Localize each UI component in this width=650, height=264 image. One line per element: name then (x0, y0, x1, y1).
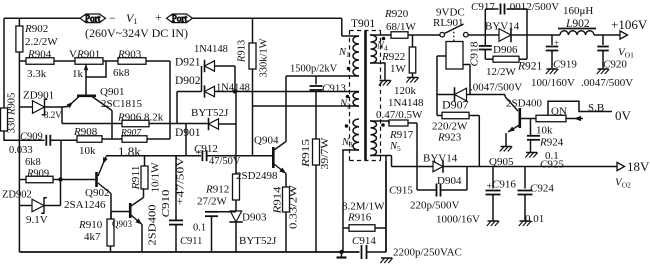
svg-text:(260V~324V DC IN): (260V~324V DC IN) (85, 28, 188, 40)
svg-text:1.8k: 1.8k (118, 144, 141, 159)
svg-text:2SD400: 2SD400 (506, 98, 543, 110)
svg-text:VO2: VO2 (615, 177, 631, 190)
svg-text:2.2/2W: 2.2/2W (25, 36, 58, 48)
svg-text:+: + (487, 182, 493, 193)
svg-text:C916: C916 (492, 179, 516, 191)
svg-text:120k: 120k (394, 85, 417, 97)
svg-text:C909: C909 (20, 132, 43, 143)
svg-text:0.33/2W: 0.33/2W (289, 185, 300, 229)
svg-text:BYV14: BYV14 (485, 21, 520, 33)
svg-text:R913: R913 (236, 40, 247, 63)
svg-text:Q901: Q901 (100, 86, 124, 98)
svg-text:Q902: Q902 (85, 187, 109, 199)
svg-text:Q905: Q905 (489, 156, 514, 168)
svg-text:S.B: S.B (588, 102, 604, 114)
svg-text:+: + (554, 38, 559, 48)
svg-text:R907: R907 (120, 129, 142, 139)
svg-text:Q904: Q904 (254, 135, 279, 147)
svg-text:0.47/0.5W: 0.47/0.5W (376, 109, 423, 121)
svg-text:R922: R922 (381, 51, 405, 63)
svg-text:N3: N3 (341, 137, 353, 149)
svg-text:C917: C917 (471, 1, 495, 13)
svg-text:3.3k: 3.3k (27, 68, 47, 80)
svg-text:R915: R915 (301, 139, 312, 168)
svg-text:Port: Port (172, 13, 188, 23)
svg-text:D902: D902 (175, 75, 201, 87)
svg-text:2SD400: 2SD400 (148, 205, 159, 246)
svg-text:C925: C925 (540, 159, 564, 171)
svg-text:C918: C918 (469, 42, 480, 67)
svg-text:+47/50V: +47/50V (175, 156, 186, 205)
svg-text:ZD902: ZD902 (2, 190, 32, 201)
svg-text:V1: V1 (126, 11, 137, 26)
svg-text:1N4148: 1N4148 (216, 83, 250, 94)
svg-text:T901: T901 (351, 18, 376, 30)
svg-text:.0047/500V: .0047/500V (581, 77, 633, 89)
svg-text:.0047/500V: .0047/500V (470, 82, 522, 94)
svg-text:R911: R911 (131, 166, 142, 191)
svg-text:Port: Port (85, 13, 101, 23)
svg-text:R923: R923 (437, 132, 462, 144)
svg-text:9.1V: 9.1V (26, 214, 48, 226)
svg-text:6k8: 6k8 (25, 157, 41, 168)
svg-text:D907: D907 (442, 98, 469, 112)
svg-text:220p/500V: 220p/500V (410, 200, 460, 212)
svg-text:D906: D906 (493, 44, 518, 56)
svg-text:D904: D904 (437, 175, 462, 187)
svg-text:R908: R908 (73, 126, 98, 138)
svg-text:1N4148: 1N4148 (388, 97, 424, 109)
svg-text:L902: L902 (565, 18, 590, 30)
svg-text:1k: 1k (72, 68, 84, 80)
svg-text:BYV14: BYV14 (423, 153, 458, 165)
svg-text:6k8: 6k8 (113, 67, 130, 79)
svg-text:10k: 10k (536, 125, 553, 137)
svg-text:2SA1246: 2SA1246 (64, 199, 106, 211)
svg-text:BYT52J: BYT52J (239, 235, 277, 247)
svg-text:330 R905: 330 R905 (7, 93, 18, 134)
svg-text:0.033: 0.033 (9, 145, 33, 156)
svg-text:D921: D921 (175, 57, 201, 69)
svg-text:R917: R917 (389, 129, 414, 141)
svg-text:330k/1W: 330k/1W (258, 38, 269, 77)
svg-text:2200p/250VAC: 2200p/250VAC (393, 247, 462, 259)
svg-text:39/7W: 39/7W (320, 137, 331, 169)
svg-text:BYT52J: BYT52J (191, 107, 229, 119)
svg-text:ON: ON (551, 106, 567, 118)
svg-text:2SC1815: 2SC1815 (101, 98, 142, 110)
svg-text:1000/16V: 1000/16V (436, 214, 480, 226)
svg-text:1500p/2kV: 1500p/2kV (290, 64, 338, 75)
svg-text:R902: R902 (24, 23, 48, 35)
svg-text:C911: C911 (180, 236, 202, 247)
svg-text:0V: 0V (615, 108, 632, 123)
svg-text:Q903: Q903 (112, 219, 132, 229)
svg-text:10/1W: 10/1W (151, 162, 162, 192)
svg-text:1N4148: 1N4148 (194, 44, 228, 55)
svg-text:R903: R903 (117, 49, 142, 61)
svg-text:R910: R910 (78, 219, 103, 231)
svg-text:12/2W: 12/2W (486, 66, 517, 78)
svg-text:R912: R912 (205, 184, 229, 196)
svg-text:R906 8.2k: R906 8.2k (117, 112, 164, 124)
svg-text:R924: R924 (539, 137, 564, 149)
svg-text:18V: 18V (627, 159, 650, 174)
svg-text:8.2V: 8.2V (44, 110, 62, 120)
svg-text:−: − (109, 11, 116, 25)
svg-text:.0012/500V: .0012/500V (507, 1, 559, 13)
svg-text:C919: C919 (553, 59, 577, 71)
svg-text:N5: N5 (389, 141, 401, 153)
svg-text:C914: C914 (352, 235, 376, 247)
svg-text:R909: R909 (26, 169, 49, 180)
svg-text:D901: D901 (175, 127, 201, 139)
svg-text:R916: R916 (347, 212, 372, 224)
svg-text:R914: R914 (272, 186, 283, 215)
svg-text:R921: R921 (517, 61, 543, 73)
svg-text:+106V: +106V (611, 17, 648, 32)
svg-text:160μH: 160μH (563, 5, 593, 17)
svg-text:C913: C913 (322, 83, 346, 95)
svg-text:0.01: 0.01 (525, 213, 544, 225)
svg-text:C924: C924 (530, 183, 554, 195)
svg-text:R904: R904 (27, 49, 52, 61)
svg-text:100/160V: 100/160V (531, 77, 575, 89)
svg-text:1W: 1W (390, 63, 407, 75)
svg-text:ZD901: ZD901 (23, 90, 54, 102)
svg-text:0.1: 0.1 (193, 223, 206, 234)
svg-text:D903: D903 (242, 212, 267, 224)
svg-text:C915: C915 (389, 185, 413, 197)
svg-text:10k: 10k (79, 145, 96, 157)
svg-text:2SD2498: 2SD2498 (236, 170, 278, 182)
svg-text:R920: R920 (384, 8, 409, 20)
svg-text:+: + (155, 10, 162, 24)
svg-text:+: + (196, 148, 202, 159)
svg-text:68/1W: 68/1W (386, 21, 417, 33)
svg-text:RL901: RL901 (433, 17, 464, 29)
svg-text:47/50V: 47/50V (209, 156, 241, 167)
svg-text:27/2W: 27/2W (197, 196, 228, 208)
svg-text:4k7: 4k7 (84, 231, 101, 243)
svg-text:C920: C920 (603, 59, 627, 71)
svg-text:C910: C910 (161, 190, 172, 218)
svg-text:N1: N1 (338, 47, 350, 59)
svg-text:VR901: VR901 (69, 49, 100, 61)
